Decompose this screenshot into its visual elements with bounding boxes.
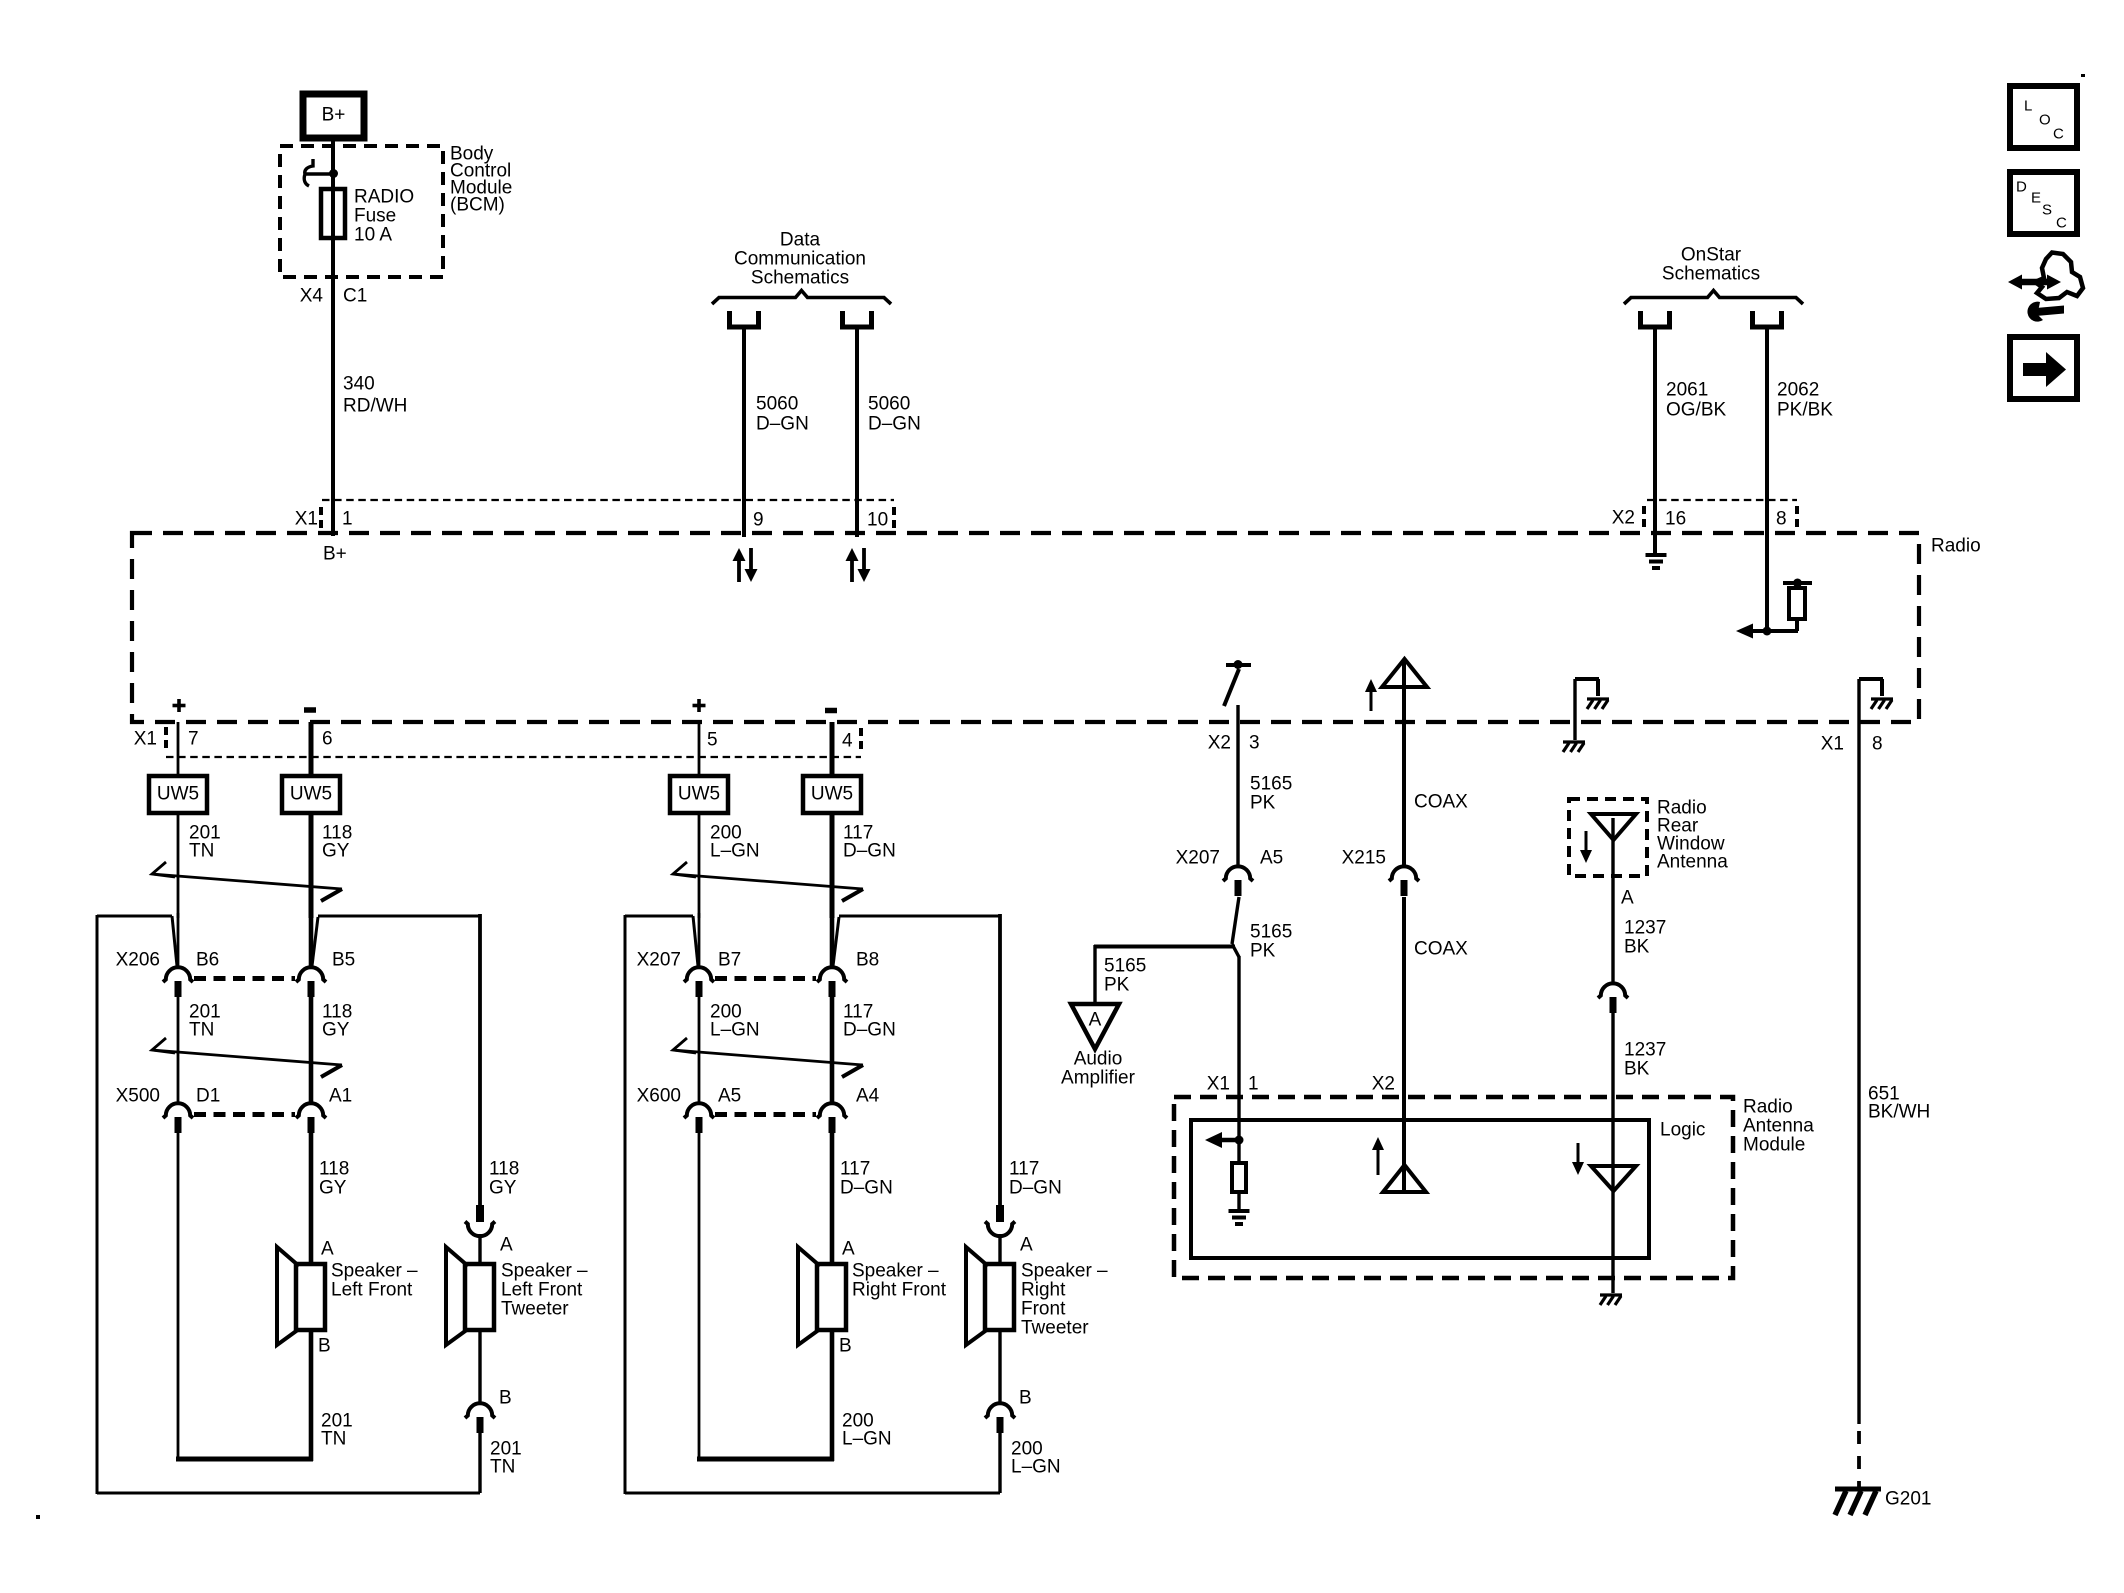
radio antenna whip symbol (pin X2-3) — [1224, 660, 1251, 706]
chassis ground below radio — [1563, 742, 1585, 752]
svg-text:B6: B6 — [196, 950, 219, 971]
svg-text:1: 1 — [342, 509, 353, 530]
svg-text:UW5: UW5 — [290, 784, 332, 805]
svg-text:Radio: Radio — [1743, 1097, 1793, 1118]
label 2061 OG/BK — [1666, 380, 1727, 421]
svg-text:Speaker –: Speaker – — [1021, 1261, 1108, 1282]
pin label 6 — [322, 729, 333, 750]
svg-text:Right: Right — [1021, 1280, 1066, 1301]
svg-text:D–GN: D–GN — [756, 414, 809, 435]
label Speaker - Left Front Tweeter — [501, 1261, 588, 1320]
connector boundary dotted line X2 top — [1647, 499, 1797, 501]
svg-text:C: C — [2053, 126, 2064, 143]
wire radio pin to UW5 option at x=832 — [830, 722, 835, 776]
wire 117 D-GN tweeter feed (box right edge) — [998, 914, 1002, 1205]
wire branch to audio amplifier — [1094, 945, 1235, 1006]
svg-text:X2: X2 — [1612, 508, 1635, 529]
label Audio Amplifier — [1061, 1049, 1136, 1089]
svg-text:A: A — [842, 1239, 855, 1260]
svg-text:O: O — [2039, 112, 2051, 129]
svg-text:5: 5 — [707, 730, 718, 751]
wire into X206 B5 — [309, 913, 314, 967]
svg-text:117: 117 — [840, 1159, 870, 1180]
wire 118 GY to speaker A — [309, 1132, 314, 1266]
up arrow in logic box — [1372, 1137, 1384, 1175]
wire 117 D-GN to speaker A — [830, 1132, 835, 1266]
svg-text:X206: X206 — [116, 950, 160, 971]
svg-text:X207: X207 — [637, 950, 681, 971]
svg-text:D–GN: D–GN — [868, 414, 921, 435]
wire 118 GY X206 to X500 — [309, 996, 314, 1104]
wire 5165 PK kink below X207 — [1232, 897, 1239, 944]
wire COAX radio to X215 — [1402, 687, 1406, 866]
wire 5165 PK radio to X207 — [1236, 705, 1239, 866]
radio case ground hook (internal) — [1575, 679, 1609, 740]
svg-text:B+: B+ — [322, 105, 346, 126]
svg-text:B: B — [839, 1336, 852, 1357]
audio amplifier triangle A — [1071, 1004, 1119, 1049]
svg-text:Schematics: Schematics — [751, 268, 849, 289]
label X215 — [1342, 848, 1386, 869]
wire COAX to antenna module — [1402, 897, 1406, 1192]
connector X600 A5 — [684, 1103, 714, 1133]
svg-text:COAX: COAX — [1414, 939, 1468, 960]
svg-text:UW5: UW5 — [678, 784, 720, 805]
fuse RADIO 10A — [321, 189, 345, 238]
svg-text:PK: PK — [1250, 941, 1276, 962]
label RADIO Fuse 10 A — [354, 187, 414, 246]
label 201 TN — [189, 823, 221, 862]
svg-text:B: B — [499, 1388, 512, 1409]
wire 117 D–GN below UW5 — [830, 813, 835, 918]
off-page connector staple (pin 9 circuit) — [730, 311, 759, 327]
harness crossover mark (left pair upper) — [152, 862, 342, 901]
inline connector tweeter B (right) — [985, 1403, 1015, 1433]
svg-text:Communication: Communication — [734, 249, 866, 270]
svg-text:X2: X2 — [1372, 1074, 1395, 1095]
svg-text:B: B — [1019, 1388, 1032, 1409]
minus sign pin 6 — [304, 707, 316, 713]
svg-text:Speaker –: Speaker – — [331, 1261, 418, 1282]
svg-text:E: E — [2031, 190, 2041, 207]
label 2062 PK/BK — [1777, 380, 1833, 421]
svg-text:RADIO: RADIO — [354, 187, 414, 208]
wire into X207 B8 — [830, 913, 835, 967]
data communication brace — [712, 291, 891, 305]
svg-text:L–GN: L–GN — [842, 1429, 892, 1450]
svg-text:Speaker –: Speaker – — [501, 1261, 588, 1282]
svg-text:L–GN: L–GN — [1011, 1457, 1061, 1478]
label 117 D-GN (speaker leg) — [840, 1159, 893, 1199]
RPO code box UW5 at x=178 — [149, 776, 207, 813]
svg-text:TN: TN — [321, 1429, 346, 1450]
svg-text:B+: B+ — [323, 544, 347, 565]
pin label X1 1 (radio B+) — [295, 507, 353, 531]
connector X207 B7 — [684, 967, 714, 997]
svg-text:5165: 5165 — [1250, 922, 1292, 943]
svg-text:X1: X1 — [1207, 1074, 1230, 1095]
up arrow by COAX antenna — [1365, 679, 1377, 711]
radio component dashed box — [132, 533, 1919, 722]
svg-text:X500: X500 — [116, 1086, 160, 1107]
svg-text:TN: TN — [189, 841, 214, 862]
pin label X1 1 (antenna module) — [1207, 1074, 1259, 1095]
svg-text:B7: B7 — [718, 950, 741, 971]
wire tweeter B — [478, 1328, 481, 1403]
wire into X206 B6 — [177, 913, 180, 967]
svg-text:118: 118 — [319, 1159, 349, 1180]
connector X206 B6 — [163, 967, 193, 997]
label 117 D-GN (tweeter) — [1009, 1159, 1062, 1199]
svg-text:5165: 5165 — [1104, 956, 1146, 977]
label Data Communication Schematics — [734, 230, 866, 289]
svg-text:BK/WH: BK/WH — [1868, 1102, 1930, 1123]
svg-text:B: B — [318, 1336, 331, 1357]
terminal label A (rear antenna) — [1621, 888, 1634, 909]
label 118 GY (speaker leg) — [319, 1159, 349, 1199]
chassis ground below antenna module — [1600, 1295, 1622, 1305]
terminal label B (right front) — [839, 1336, 852, 1357]
pin 9 serial data arrows — [733, 548, 758, 582]
earth ground in logic box — [1229, 1211, 1250, 1224]
RPO code box UW5 at x=311 — [282, 776, 340, 813]
label 5060 D-GN (left) — [756, 394, 809, 435]
wire 200 L-GN X207 to X600 — [698, 996, 701, 1104]
label 118 GY — [322, 823, 352, 862]
svg-text:X1: X1 — [134, 729, 157, 750]
pin label 4 — [842, 728, 861, 752]
wire radio pin to UW5 option at x=699 — [698, 722, 701, 776]
BCM dashed box — [280, 146, 443, 277]
connector X500 D1 — [163, 1103, 193, 1133]
label X500 D1 A1 — [116, 1086, 353, 1107]
icon vehicle outline with arrow and wrench — [2008, 253, 2083, 322]
connector X207 B8 — [817, 967, 847, 997]
svg-text:X2: X2 — [1208, 733, 1231, 754]
down arrow in logic box — [1572, 1143, 1584, 1175]
wire 201 TN X206 to X500 — [177, 996, 180, 1104]
down arrow rear window antenna — [1580, 831, 1592, 863]
wire 651 BK/WH — [1857, 679, 1860, 1424]
label 5165 PK (amplifier) — [1104, 956, 1146, 996]
terminal label B (left tweeter) — [499, 1388, 512, 1409]
svg-text:B5: B5 — [332, 950, 355, 971]
wire 201 TN below UW5 — [177, 813, 180, 918]
wire B+ to fuse — [331, 138, 335, 190]
label COAX (upper) — [1414, 792, 1468, 813]
wire 5060 D-GN (right) — [855, 327, 859, 537]
svg-text:COAX: COAX — [1414, 792, 1468, 813]
radio ground pin hook X1-8 — [1859, 679, 1893, 709]
svg-text:OG/BK: OG/BK — [1666, 400, 1727, 421]
wire right tweeter A — [998, 1234, 1001, 1266]
label 1237 BK (upper) — [1624, 918, 1666, 958]
pin label X2 3 — [1208, 733, 1260, 754]
svg-text:A: A — [1089, 1010, 1102, 1031]
speaker Left Front — [277, 1247, 325, 1345]
svg-text:Radio: Radio — [1931, 536, 1981, 557]
wire right tweeter B to enclosure bottom — [998, 1433, 1001, 1493]
svg-text:A: A — [321, 1239, 334, 1260]
svg-text:A1: A1 — [329, 1086, 352, 1107]
label 201 TN (door) — [189, 1002, 221, 1041]
label X207 B7 B8 — [637, 950, 880, 971]
svg-text:S: S — [2042, 202, 2052, 219]
connector X500 dashed body — [194, 1112, 295, 1117]
svg-text:OnStar: OnStar — [1681, 245, 1742, 266]
pin label 9 — [753, 510, 764, 531]
off-page connector staple (2062) — [1753, 311, 1782, 327]
svg-text:Data: Data — [780, 230, 821, 251]
label Speaker - Left Front — [331, 1261, 418, 1301]
earth ground inside radio (pin 16) — [1646, 555, 1667, 568]
wire right tweeter B — [998, 1328, 1001, 1403]
label 118 GY (door) — [322, 1002, 352, 1041]
label X206 B6 B5 — [116, 950, 356, 971]
wire 201 TN to speaker return — [176, 1132, 313, 1461]
label X600 A5 A4 — [637, 1086, 880, 1107]
svg-text:10 A: 10 A — [354, 225, 392, 246]
svg-text:PK/BK: PK/BK — [1777, 400, 1833, 421]
plus sign pin 5 — [693, 699, 706, 712]
speaker Right Front Tweeter — [966, 1247, 1014, 1345]
wire radio pin to UW5 option at x=178 — [177, 722, 180, 776]
label 5060 D-GN (right) — [868, 394, 921, 435]
svg-text:BK: BK — [1624, 1059, 1650, 1080]
label 201 TN (tweeter return) — [490, 1439, 522, 1478]
connector X206 B5 — [296, 967, 326, 997]
wire 340 RD/WH fuse to radio pin 1 — [331, 238, 335, 536]
svg-text:A: A — [1020, 1235, 1033, 1256]
svg-text:GY: GY — [489, 1178, 517, 1199]
pin 10 serial data arrows — [846, 548, 871, 582]
svg-text:Module: Module — [1743, 1135, 1805, 1156]
svg-text:Antenna: Antenna — [1743, 1116, 1814, 1137]
svg-text:Speaker –: Speaker – — [852, 1261, 939, 1282]
svg-text:Tweeter: Tweeter — [501, 1299, 569, 1320]
label X207 A5 — [1176, 848, 1284, 869]
svg-text:6: 6 — [322, 729, 333, 750]
power symbol B+ box — [303, 94, 364, 138]
pin label X1 8 — [1821, 734, 1883, 755]
pin label 5 — [707, 730, 718, 751]
pin label 8 (OnStar) — [1776, 506, 1797, 530]
svg-text:B8: B8 — [856, 950, 879, 971]
inline connector tweeter B (left) — [465, 1403, 495, 1433]
label 117 D-GN (door) — [843, 1002, 896, 1041]
wire 200 L-GN to speaker return — [697, 1132, 834, 1461]
harness crossover mark (right pair upper) — [673, 862, 863, 901]
pin label 10 — [867, 507, 894, 531]
logic resistor — [1232, 1140, 1246, 1210]
svg-text:4: 4 — [842, 731, 853, 752]
wire 2062 PK/BK — [1765, 327, 1769, 631]
inline connector tweeter A (left) — [465, 1205, 495, 1236]
svg-text:117: 117 — [1009, 1159, 1039, 1180]
wire 117 D-GN X207 to X600 — [830, 996, 835, 1104]
wire into X207 B7 — [698, 913, 701, 967]
wire tweeter B to enclosure bottom — [478, 1433, 481, 1493]
connector X500 A1 — [296, 1103, 326, 1133]
svg-text:5060: 5060 — [756, 394, 798, 415]
wire 1237 BK to antenna module — [1611, 1013, 1614, 1293]
wire 118 GY tweeter feed (box right edge) — [478, 914, 482, 1205]
wire 200 L–GN below UW5 — [698, 813, 701, 918]
svg-text:Front: Front — [1021, 1299, 1066, 1320]
svg-text:L–GN: L–GN — [710, 841, 760, 862]
svg-text:D–GN: D–GN — [1009, 1178, 1062, 1199]
label 340 RD/WH — [343, 374, 407, 417]
harness crossover mark (right pair lower) — [673, 1038, 863, 1077]
svg-text:L–GN: L–GN — [710, 1020, 760, 1041]
OnStar brace — [1624, 291, 1803, 305]
svg-text:X1: X1 — [1821, 734, 1844, 755]
label Speaker - Right Front Tweeter — [1021, 1261, 1108, 1339]
connector label X4 C1 — [300, 286, 368, 307]
svg-text:X4: X4 — [300, 286, 324, 307]
svg-text:GY: GY — [322, 841, 350, 862]
svg-text:2062: 2062 — [1777, 380, 1819, 401]
icon box forward arrow — [2010, 337, 2077, 399]
left door enclosure outline — [97, 915, 480, 1494]
svg-text:D–GN: D–GN — [843, 1020, 896, 1041]
stray mark bottom left — [36, 1515, 40, 1519]
label B+ at radio pin 1 — [323, 544, 347, 565]
wire tweeter A — [478, 1234, 481, 1266]
svg-text:UW5: UW5 — [811, 784, 853, 805]
wire 2061 OG/BK — [1653, 327, 1657, 554]
svg-text:Logic: Logic — [1660, 1120, 1705, 1141]
RPO code box UW5 at x=699 — [670, 776, 728, 813]
label G201 — [1885, 1489, 1931, 1510]
svg-text:C1: C1 — [343, 286, 367, 307]
svg-text:C: C — [2056, 215, 2067, 232]
svg-text:Right Front: Right Front — [852, 1280, 947, 1301]
svg-text:PK: PK — [1104, 975, 1130, 996]
svg-text:9: 9 — [753, 510, 764, 531]
inline connector 1237 BK — [1598, 983, 1628, 1013]
svg-text:PK: PK — [1250, 793, 1276, 814]
pin label X1 7 — [134, 727, 199, 751]
connector X207 dashed body — [715, 976, 816, 981]
svg-text:1237: 1237 — [1624, 1040, 1666, 1061]
plus sign pin 7 — [173, 699, 186, 712]
svg-text:340: 340 — [343, 374, 375, 395]
connector X206 dashed body — [194, 976, 295, 981]
label 118 GY (tweeter) — [489, 1159, 519, 1199]
svg-text:UW5: UW5 — [157, 784, 199, 805]
speaker Left Front Tweeter — [446, 1247, 494, 1345]
radio antenna module dashed box — [1174, 1097, 1733, 1278]
terminal label A (right tweeter) — [1020, 1235, 1033, 1256]
svg-text:BK: BK — [1624, 937, 1650, 958]
minus sign pin 4 — [825, 708, 837, 714]
svg-text:118: 118 — [489, 1159, 519, 1180]
label Body Control Module (BCM) — [450, 144, 512, 216]
connector X207 A5 — [1223, 866, 1253, 896]
logic output arrow and junction — [1205, 1132, 1244, 1148]
wire 118 GY below UW5 — [309, 813, 314, 918]
svg-text:X215: X215 — [1342, 848, 1386, 869]
svg-text:8: 8 — [1776, 509, 1787, 530]
svg-text:Antenna: Antenna — [1657, 852, 1728, 873]
fuse clip hook and junction — [304, 159, 338, 186]
speaker Right Front — [798, 1247, 846, 1345]
terminal label A (right front) — [842, 1239, 855, 1260]
svg-text:X207: X207 — [1176, 848, 1220, 869]
label Radio — [1931, 536, 1981, 557]
terminal label A (left front) — [321, 1239, 334, 1260]
svg-text:8: 8 — [1872, 734, 1883, 755]
svg-text:L: L — [2024, 98, 2032, 115]
connector boundary dotted line X1 bottom — [166, 756, 861, 758]
label 200 L-GN (speaker return) — [842, 1411, 892, 1450]
connector X600 A4 — [817, 1103, 847, 1133]
RPO code box UW5 at x=832 — [803, 776, 861, 813]
inline connector tweeter A (right) — [985, 1205, 1015, 1236]
svg-text:D–GN: D–GN — [843, 841, 896, 862]
label 201 TN (speaker return) — [321, 1411, 353, 1450]
label Radio Rear Window Antenna — [1657, 798, 1728, 873]
svg-text:Amplifier: Amplifier — [1061, 1068, 1136, 1089]
svg-text:5165: 5165 — [1250, 774, 1292, 795]
svg-text:A4: A4 — [856, 1086, 880, 1107]
connector boundary dotted line X1 top — [322, 499, 894, 501]
internal resistor and arrow (pin 8 termination) — [1736, 579, 1812, 639]
label 200 L-GN (door) — [710, 1002, 760, 1041]
label Radio Antenna Module — [1743, 1097, 1814, 1156]
svg-text:D–GN: D–GN — [840, 1178, 893, 1199]
svg-text:GY: GY — [319, 1178, 347, 1199]
terminal label B (right tweeter) — [1019, 1388, 1032, 1409]
svg-text:16: 16 — [1665, 509, 1686, 530]
label Logic — [1660, 1120, 1705, 1141]
radio rear window antenna dashed box — [1569, 799, 1647, 876]
wire 5165 PK to antenna module — [1232, 944, 1239, 1140]
chassis ground G201 — [1835, 1489, 1881, 1515]
svg-text:A5: A5 — [718, 1086, 741, 1107]
svg-text:Left Front: Left Front — [501, 1280, 583, 1301]
svg-text:2061: 2061 — [1666, 380, 1708, 401]
svg-text:G201: G201 — [1885, 1489, 1931, 1510]
svg-text:10: 10 — [867, 510, 888, 531]
wire 651 dashed tail — [1857, 1431, 1861, 1489]
off-page connector staple (2061) — [1641, 311, 1670, 327]
connector X600 dashed body — [715, 1112, 816, 1117]
icon box DESC — [2010, 172, 2077, 234]
svg-text:X600: X600 — [637, 1086, 681, 1107]
label OnStar Schematics — [1662, 245, 1760, 285]
rear window antenna symbol — [1591, 814, 1636, 983]
harness crossover mark (left pair lower) — [152, 1038, 342, 1077]
svg-text:Tweeter: Tweeter — [1021, 1318, 1089, 1339]
terminal label A (left tweeter) — [500, 1235, 513, 1256]
label 200 L-GN (tweeter return) — [1011, 1439, 1061, 1478]
logic antenna symbol (rear window) — [1591, 1166, 1636, 1191]
svg-text:1: 1 — [1248, 1074, 1259, 1095]
svg-text:X1: X1 — [295, 509, 318, 530]
svg-text:A: A — [500, 1235, 513, 1256]
off-page connector staple (pin 10 circuit) — [843, 311, 872, 327]
svg-text:Schematics: Schematics — [1662, 264, 1760, 285]
stray mark top right — [2081, 74, 2085, 77]
svg-text:Left Front: Left Front — [331, 1280, 413, 1301]
svg-text:TN: TN — [490, 1457, 515, 1478]
COAX antenna symbol inside radio — [1382, 659, 1427, 722]
label COAX (lower) — [1414, 939, 1468, 960]
terminal label B (left front) — [318, 1336, 331, 1357]
label 5165 PK (middle) — [1250, 922, 1292, 962]
